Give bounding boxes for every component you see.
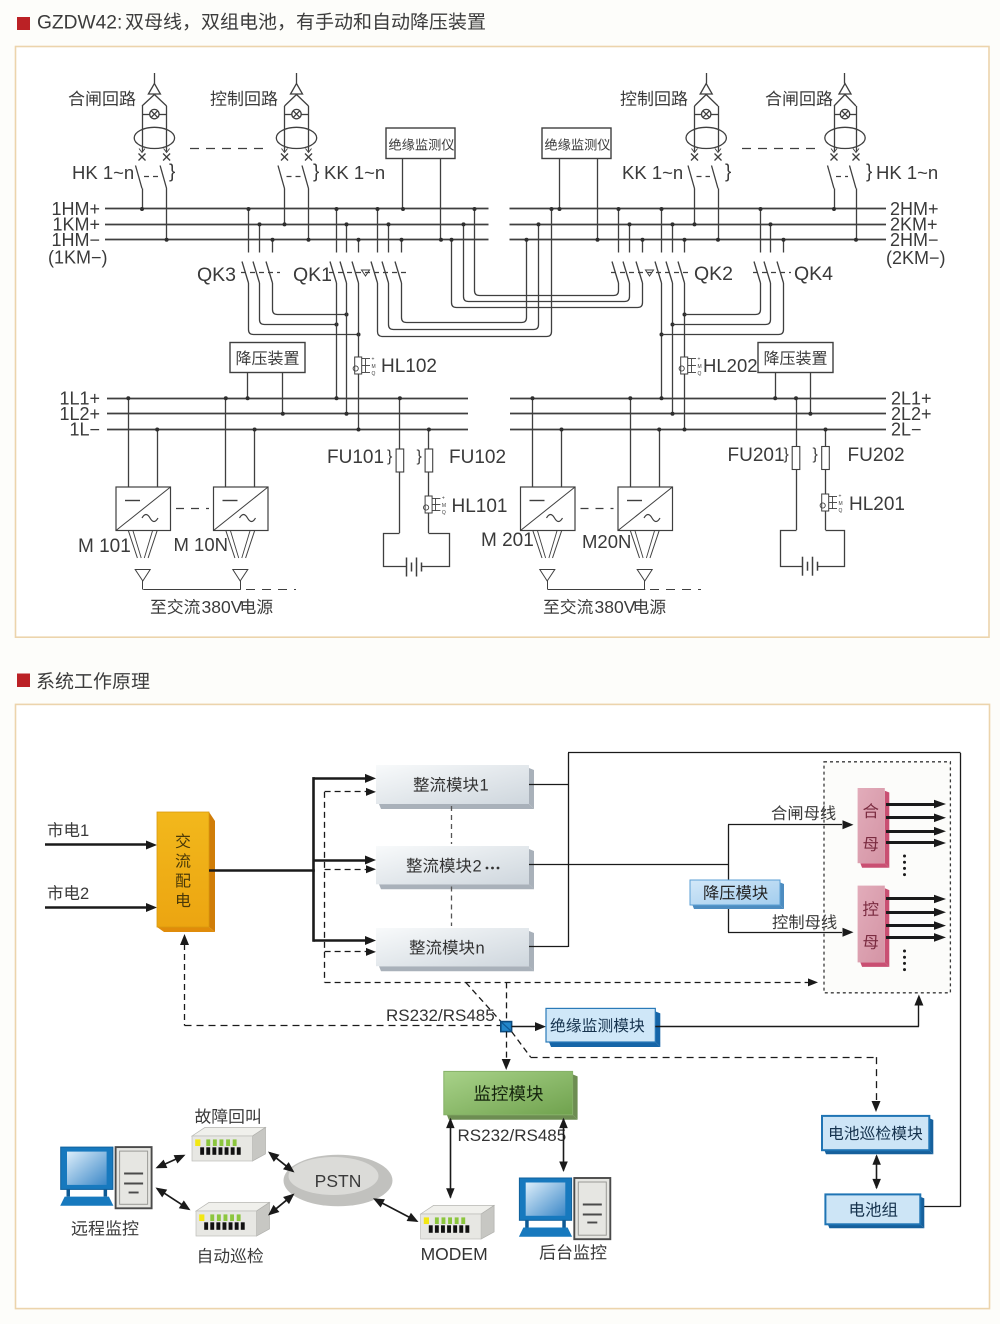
svg-text:QK2: QK2 [694, 263, 733, 285]
fuse FU202 [822, 447, 830, 470]
QK1 pole3 wire to 1L- [358, 283, 360, 430]
QK1 pole2 stub [346, 224, 348, 252]
QK4 pole2 output wire [673, 283, 771, 325]
battery branch 2 wire from 2L- [825, 430, 827, 447]
svg-text:2L−: 2L− [891, 420, 922, 440]
svg-text:380V: 380V [595, 597, 636, 617]
dropper wires right [775, 373, 777, 399]
indicator HL101 symbol [425, 496, 432, 513]
closing-R lamp body roof [834, 95, 845, 107]
trunk from AC box [209, 869, 315, 872]
line insulation module to dotted rect [655, 1026, 919, 1028]
svg-text:HK 1~n: HK 1~n [876, 162, 938, 183]
svg-text:QK1: QK1 [293, 264, 332, 286]
closing-L x-mark [139, 154, 146, 161]
battery group 1 loop [384, 534, 407, 567]
QK2 pole6 blade [678, 262, 685, 284]
modem device top [421, 1205, 495, 1214]
QK1 pole1 wire to 1L1+ [336, 283, 338, 398]
modem device leds [424, 1217, 429, 1224]
label mains 1 [48, 822, 80, 837]
QK1 linkage triangle [362, 270, 370, 276]
QK2 pole3 blade [636, 262, 643, 284]
QK1 pole5 stub [388, 224, 390, 252]
block jiankong face [444, 1071, 573, 1114]
svg-text:Q: Q [839, 508, 843, 514]
control-L wires to busbars [284, 189, 286, 225]
arrow comm node to insulation module [512, 1026, 535, 1028]
battery group 2 loop [781, 531, 803, 567]
backstage monitor legs [525, 1220, 529, 1227]
fuse FU102 [425, 449, 433, 472]
svg-text:FU102: FU102 [449, 447, 506, 468]
dashed drop from AC box [184, 944, 186, 1026]
backstage monitor base [519, 1228, 572, 1237]
arrow mains 1 [45, 843, 147, 846]
fault-callback device slots [200, 1147, 204, 1155]
dashed diagonal from comm node down [512, 1032, 531, 1058]
panel 2 frame [16, 704, 990, 1308]
arrow mains 2 [45, 906, 147, 909]
svg-text:}: } [417, 448, 423, 465]
label control bus [773, 914, 837, 929]
modem device front [421, 1214, 482, 1239]
control-R lamp body roof [695, 95, 707, 107]
QK3 pole2 blade [253, 262, 260, 284]
fault-callback device top [192, 1127, 266, 1136]
svg-text:2: 2 [473, 858, 482, 876]
control-L lamp stem [296, 73, 298, 84]
rectifier module M201 box [521, 487, 576, 531]
QK4 pole3 output wire [662, 283, 784, 335]
control-R wires to busbars [694, 189, 696, 225]
control-L x-mark [281, 154, 288, 161]
svg-text:HL202: HL202 [703, 355, 758, 376]
block jiangya face [690, 880, 780, 905]
svg-text:}: } [169, 162, 175, 183]
closing-R wires to busbars [834, 189, 836, 210]
feed to bus blocks [568, 864, 728, 866]
QK2 pole4 blade [655, 262, 662, 284]
QK4 pole2 blade [764, 262, 771, 284]
control bus arrows [886, 897, 934, 900]
remote-fault double arrow [157, 1156, 183, 1168]
closing-L wires to busbars [142, 189, 144, 210]
QK1 pole4 crossover wire to 2HM+ [378, 209, 552, 337]
label fault callback [195, 1108, 260, 1124]
QK3 pole1 output wire [249, 283, 359, 335]
closing-L lamp circle [150, 109, 159, 118]
busbar 2L- [510, 429, 886, 431]
svg-text:}: } [725, 162, 731, 183]
double arrow monitor-backstage [563, 1119, 565, 1171]
output bus vertical [568, 753, 570, 947]
section title 1 bullet [17, 17, 30, 30]
block dcxj face [822, 1116, 929, 1150]
QK2 linkage triangle [646, 270, 654, 276]
QK2 pole5 blade [666, 262, 673, 284]
fuse FU201 [792, 447, 800, 470]
svg-text:M20N: M20N [582, 531, 631, 552]
svg-text:}: } [866, 162, 872, 183]
QK4 pole3 stub [783, 240, 785, 253]
auto-patrol device top [196, 1202, 270, 1211]
closing bus feed line [728, 824, 842, 826]
QK1 pole6 blade [395, 262, 402, 284]
QK4 pole1 stub [760, 209, 762, 253]
busbar 1KM+ [105, 224, 489, 226]
control-R x-mark [715, 154, 722, 161]
closing bus arrows [886, 803, 934, 806]
fault-pstn double arrow [270, 1153, 293, 1172]
busbar 2HM- [510, 239, 887, 241]
section title 2 bullet [17, 674, 30, 688]
module M201 arrow [540, 570, 555, 582]
svg-text:M: M [442, 503, 446, 509]
QK1 pole2 blade [340, 262, 347, 284]
module output lines [529, 784, 568, 786]
QK4 pole1 output wire [685, 283, 761, 315]
remote-patrol double arrow [157, 1189, 189, 1210]
arrow into module 1 [314, 777, 367, 780]
busbar 1L2+ [107, 413, 468, 415]
patrol-pstn double arrow [270, 1195, 294, 1214]
insulation monitor box left [386, 128, 455, 159]
block kongmu face [858, 886, 885, 963]
voltage dropper box left (jiangya zhuangzhi) [230, 343, 305, 373]
control-L lamp ellipse [276, 127, 316, 148]
control-R x-mark [691, 154, 698, 161]
QK2 pole5 stub [672, 224, 674, 252]
dashed diagonal to comm node [466, 982, 501, 1021]
block jiangya shadow [780, 882, 784, 909]
dashed link between lamp groups left [190, 148, 266, 150]
svg-text:GZDW42:: GZDW42: [37, 13, 122, 34]
label closing bus [772, 805, 836, 820]
dashed bus to comm node [325, 982, 808, 984]
svg-text:QK4: QK4 [794, 263, 833, 285]
QK1 pole1 blade [330, 262, 337, 284]
dashed arrow into module 3 [325, 951, 366, 953]
svg-text:M 201: M 201 [481, 530, 534, 551]
dropper wires left [247, 373, 249, 399]
svg-text:2: 2 [80, 885, 89, 903]
block dcz face [825, 1194, 920, 1224]
closing-L lamp ellipse [134, 127, 174, 148]
QK1 pole5 crossover wire to 2KM+ [389, 224, 539, 329]
svg-text:n: n [476, 940, 485, 958]
dashed line to battery inspect [531, 1057, 876, 1059]
closing-R lamp side wires [834, 106, 836, 152]
dashed link between M101 M10N [176, 508, 209, 510]
closing-L x-mark [163, 154, 170, 161]
QK1 pole4 blade [371, 262, 378, 284]
QK4 linkage dashes [753, 272, 791, 274]
fault-callback device side [253, 1127, 266, 1161]
dotted enclosure [824, 762, 950, 993]
block hemu face [858, 788, 885, 863]
control-R lamp side wires [694, 106, 696, 152]
block jiankong shadow [573, 1074, 578, 1119]
dashed RS232 line to AC box [185, 1025, 501, 1027]
svg-text:+: + [698, 357, 701, 363]
dotted ellipsis 2 [903, 950, 906, 953]
svg-text:KK 1~n: KK 1~n [622, 162, 683, 183]
backstage monitor [519, 1178, 571, 1220]
control-L lamp triangle [291, 84, 303, 95]
closing-L switch blades [136, 166, 143, 189]
svg-text:Q: Q [698, 371, 702, 377]
insulation monitor box right [542, 128, 611, 159]
battery group 1 cells [406, 558, 408, 577]
battery branch 2 wire from 2L1+ [796, 398, 798, 446]
svg-text:1L−: 1L− [69, 420, 100, 440]
QK1 pole6 stub [401, 240, 403, 253]
module M101 funnel [128, 531, 137, 559]
dashed arrow into module 2 [325, 869, 366, 871]
QK1 pole3 blade [352, 262, 359, 284]
svg-text:KK 1~n: KK 1~n [324, 162, 385, 183]
control-R lamp ellipse [686, 127, 726, 148]
AC distribution box 3d extrude [209, 812, 215, 932]
dashed link between M201 M20N [581, 508, 614, 510]
block rect2 face [376, 846, 529, 884]
monitor wires right [559, 159, 561, 210]
remote monitor base [60, 1197, 113, 1206]
dotted ellipsis 1 [903, 855, 906, 858]
control-L lamp side wires [284, 106, 286, 152]
block dcz shadow [920, 1197, 924, 1229]
QK2 pole3 stub [642, 240, 644, 253]
module M20N funnel [630, 531, 639, 559]
dashed trunk vertical [324, 792, 326, 983]
module M201 funnel [533, 531, 542, 559]
double arrow monitor-MODEM [450, 1119, 452, 1198]
fuse FU101 [396, 449, 404, 472]
QK1 pole4 stub [377, 209, 379, 253]
svg-text:+: + [839, 494, 842, 500]
AC supply label left [151, 599, 200, 615]
pstn-modem double arrow [375, 1199, 417, 1221]
indicator HL202 symbol [681, 357, 688, 374]
QK3 pole3 output wire [273, 283, 347, 315]
fault-callback device front [192, 1136, 253, 1161]
QK2 linkage dashes [611, 272, 691, 274]
auto-patrol device front [196, 1211, 257, 1236]
busbar 2HM+ [510, 208, 887, 210]
remote monitor legs [67, 1189, 71, 1196]
modem device side [481, 1205, 494, 1239]
module M20N arrow [637, 570, 652, 582]
svg-text:(1KM−): (1KM−) [48, 248, 108, 268]
svg-text:FU201: FU201 [728, 445, 785, 466]
battery group 2 cells [802, 557, 804, 576]
control bus feed line [728, 932, 842, 934]
rectifier module M101 box [116, 487, 171, 531]
control-R lamp stem [706, 73, 708, 84]
closing-R lamp triangle [839, 84, 851, 95]
comm node square [501, 1022, 512, 1032]
svg-text:RS232/RS485: RS232/RS485 [386, 1006, 495, 1025]
control-L lamp body roof [285, 95, 297, 107]
closing-L lamp side wires [142, 106, 144, 152]
closing-L lamp triangle [148, 84, 160, 95]
QK3 pole1 stub [248, 209, 250, 253]
QK2 pole1 crossover wire to 1HM+ [475, 209, 619, 296]
svg-text:HL201: HL201 [849, 494, 905, 515]
svg-text:Q: Q [372, 371, 376, 377]
closing-R switch blades [828, 166, 835, 189]
busbar 1HM+ [105, 208, 489, 210]
dashed arrow down into monitor module [506, 1032, 508, 1058]
svg-text:FU101: FU101 [327, 447, 384, 468]
QK4 pole3 blade [777, 262, 784, 284]
svg-text:1: 1 [80, 822, 89, 840]
svg-text:Q: Q [442, 510, 446, 516]
QK2 pole5 wire to 2L2+ [672, 283, 674, 414]
QK1 linkage dashes [329, 272, 408, 274]
QK2 pole4 wire to 2L1+ [661, 283, 663, 398]
QK2 pole2 crossover wire to 1KM+ [464, 224, 630, 301]
busbar 1L- [107, 429, 468, 431]
QK2 pole4 stub [661, 209, 663, 253]
svg-text:HK 1~n: HK 1~n [72, 162, 134, 183]
block rect1 shadow [529, 768, 534, 809]
busbar 2L1+ [510, 398, 886, 400]
dashed arrow into module 1 [325, 791, 366, 793]
QK3 pole3 blade [266, 262, 273, 284]
svg-text:M: M [698, 364, 702, 370]
battery charge line right vertical [960, 753, 962, 1207]
AC distribution box face [157, 812, 209, 927]
control-L x-mark [305, 154, 312, 161]
QK2 pole3 crossover wire to 1HM- [452, 240, 643, 308]
module M10N arrow [233, 570, 248, 582]
block rect1 face [376, 765, 529, 804]
closing-R lamp circle [840, 109, 849, 118]
closing-R x-mark [853, 154, 860, 161]
svg-text:QK3: QK3 [197, 264, 236, 286]
PSTN ellipse [284, 1155, 393, 1207]
battery branch 1 wire from 1L- [428, 430, 430, 450]
control-L switch blades [278, 166, 285, 189]
block jyjc shadow [655, 1011, 660, 1047]
AC supply line right [548, 589, 646, 591]
svg-text:380V: 380V [202, 597, 243, 617]
auto-patrol device leds [199, 1214, 204, 1221]
busbar 1L1+ [107, 398, 468, 400]
fault-callback device leds [195, 1139, 200, 1146]
svg-text:FU202: FU202 [848, 445, 905, 466]
double arrow inspect-battery [876, 1156, 878, 1188]
control-R lamp triangle [700, 84, 712, 95]
block rect3 face [376, 928, 529, 966]
voltage dropper box right [758, 343, 833, 373]
svg-text:}: } [813, 446, 819, 463]
closing-R x-mark [831, 154, 838, 161]
remote monitor [61, 1147, 113, 1189]
label auto patrol [199, 1248, 263, 1264]
closing-R lamp stem [844, 73, 846, 84]
AC supply line left [143, 589, 241, 591]
QK2 pole1 blade [612, 262, 619, 284]
QK4 pole2 stub [770, 224, 772, 252]
svg-text:MODEM: MODEM [421, 1244, 488, 1264]
svg-text:+: + [372, 357, 375, 363]
block hemu shadow [885, 791, 890, 868]
remote tower [116, 1147, 152, 1208]
QK1 pole3 stub [358, 240, 360, 253]
QK4 pole1 blade [754, 262, 761, 284]
AC supply label right [544, 599, 593, 615]
indicator HL102 symbol [355, 357, 362, 374]
block dcxj shadow [929, 1118, 933, 1154]
QK1 pole2 wire to 1L2+ [346, 283, 348, 414]
svg-text:2HM−: 2HM− [890, 230, 939, 250]
QK2 pole6 wire to 2L- [684, 283, 686, 430]
backstage tower [574, 1178, 610, 1239]
svg-text:HL102: HL102 [381, 356, 437, 377]
QK3 pole2 output wire [260, 283, 337, 325]
section title 2 text [37, 672, 149, 690]
indicator HL201 symbol [822, 494, 829, 511]
svg-text:HL101: HL101 [452, 496, 508, 517]
AC distribution box label [176, 833, 191, 907]
QK3 linkage dashes [241, 272, 280, 274]
closing-L lamp stem [154, 73, 156, 84]
QK1 pole6 crossover wire to 2HM- [402, 240, 527, 323]
QK1 pole5 blade [382, 262, 389, 284]
dashed vertical to comm node [506, 982, 508, 1020]
closing-R lamp ellipse [825, 127, 865, 148]
dashed links between rectifier blocks [451, 806, 453, 844]
modem device slots [429, 1225, 433, 1233]
QK3 pole3 stub [272, 240, 274, 253]
auto-patrol device slots [204, 1222, 208, 1230]
busbar 2L2+ [510, 413, 886, 415]
control-R lamp circle [702, 109, 711, 118]
svg-text:(2KM−): (2KM−) [886, 248, 946, 268]
svg-text:M 101: M 101 [78, 536, 131, 557]
QK2 pole2 blade [623, 262, 630, 284]
module M101 arrow [135, 570, 150, 582]
QK2 pole1 stub [618, 209, 620, 253]
control-R switch blades [688, 166, 695, 189]
label mains 2 [48, 885, 80, 900]
battery link horizontal [920, 1206, 960, 1208]
dashed link between lamp groups right [742, 148, 816, 150]
control-L lamp circle [292, 109, 301, 118]
block rect2 shadow [529, 849, 534, 889]
svg-text:}: } [387, 448, 393, 465]
output bus top line [568, 752, 961, 754]
QK3 pole2 stub [259, 224, 261, 252]
QK2 pole6 stub [684, 240, 686, 253]
block kongmu shadow [885, 888, 890, 967]
svg-text:PSTN: PSTN [315, 1171, 362, 1191]
svg-text:M: M [839, 501, 843, 507]
busbar 2KM+ [510, 224, 887, 226]
svg-text:}: } [313, 162, 319, 183]
svg-text:M: M [372, 364, 376, 370]
svg-text:1: 1 [480, 777, 489, 795]
arrow into module 2 [314, 859, 367, 862]
QK3 pole1 blade [242, 262, 249, 284]
label remote monitoring [72, 1220, 139, 1236]
arrow into module 3 [314, 939, 367, 942]
monitor wires left [402, 159, 404, 210]
module M10N funnel [226, 531, 235, 559]
